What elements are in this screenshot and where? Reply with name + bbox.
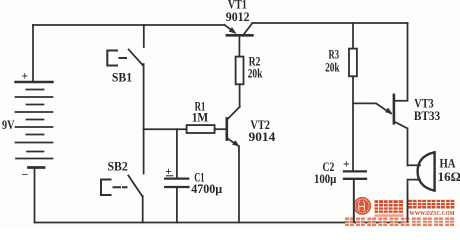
transistor VT2 base bar (226, 118, 229, 139)
battery GB 9V plates (16, 82, 53, 168)
svg-text:BT33: BT33 (414, 108, 441, 123)
transistor VT3 emitter arrowhead (385, 108, 392, 114)
switch SB2 lower wire (142, 196, 144, 223)
wire R3 to C2 and VT3 emitter node (352, 76, 354, 170)
battery GB 9V top lead wire (32, 25, 34, 82)
capacitor C2 plates (344, 171, 366, 178)
transistor VT3 emitter diagonal with arrow (376, 103, 391, 113)
wire R1 to VT2 base (215, 128, 226, 130)
wire right border over watermark (407, 190, 409, 223)
svg-text:9012: 9012 (226, 9, 250, 24)
svg-text:20k: 20k (248, 66, 263, 81)
switch SB2 upper wire (143, 129, 145, 173)
switch SB1 lower wire to mid node (143, 64, 145, 129)
svg-text:4700µ: 4700µ (191, 181, 222, 196)
switch SB1 upper wire (143, 25, 145, 47)
wire top rail left (33, 24, 225, 26)
svg-text:SB1: SB1 (112, 69, 132, 84)
capacitor C2 lower lead wire (353, 180, 355, 223)
wire R2 to VT2 collector (239, 84, 241, 106)
svg-text:100µ: 100µ (314, 171, 337, 186)
watermark text dian zi shi chang wang (408, 200, 454, 209)
speaker HA top lead wire (408, 164, 421, 166)
transistor VT1 emitter arrowhead (229, 27, 393, 146)
svg-text:+: + (22, 71, 29, 83)
capacitor C1 tap wire (176, 129, 178, 177)
svg-text:16Ω: 16Ω (438, 169, 460, 184)
transistor VT3 emitter row wire (353, 102, 376, 104)
transistor VT1 emitter wire with arrow (225, 25, 235, 32)
svg-text:−: − (22, 168, 29, 182)
transistor VT2 emitter arrowhead (232, 140, 239, 146)
watermark big text wei ku (374, 200, 403, 217)
svg-text:20k: 20k (325, 60, 340, 75)
switch SB2 blade (128, 176, 142, 197)
svg-text:+: + (343, 159, 350, 171)
switch SB1 actuator bracket E with dashes (107, 51, 126, 66)
resistor R2 body (236, 57, 244, 85)
resistor R1 body (187, 125, 215, 133)
switch SB2 actuator bracket E with dashes (101, 180, 127, 196)
switch SB1 blade (129, 50, 143, 66)
capacitor C1 lower lead wire (176, 188, 178, 223)
battery bottom lead wire (34, 168, 36, 223)
wire top rail right (252, 22, 407, 24)
transistor VT3 B2 wire to top rail (395, 23, 408, 101)
svg-text:1M: 1M (192, 110, 209, 125)
transistor VT2 emitter diagonal with arrow (227, 138, 238, 146)
svg-text:9V: 9V (2, 117, 15, 132)
transistor VT1 base bar (227, 34, 253, 37)
svg-text:SB2: SB2 (108, 158, 128, 173)
wire mid row to R1 (144, 128, 187, 130)
capacitor C1 plates (165, 179, 188, 187)
transistor VT3 base bar (393, 95, 396, 123)
speaker HA body (418, 152, 435, 190)
svg-text:WWW.DZSC.COM: WWW.DZSC.COM (409, 211, 454, 217)
resistor R3 branch wire from rail (352, 23, 354, 49)
transistor VT1 collector wire (243, 23, 252, 35)
wire bottom rail (35, 222, 408, 224)
resistor R3 body (349, 49, 357, 77)
watermark logo disc (353, 197, 371, 215)
wire C2 lower lead over watermark (353, 180, 355, 223)
transistor VT3 B1 wire down to speaker (395, 122, 408, 166)
watermark bottom row zhuan ye dian zi yuan qi jian jiao yi wang zhan (345, 218, 454, 227)
transistor VT1 base lead down (238, 36, 240, 57)
transistor VT2 emitter wire down (238, 146, 240, 222)
speaker HA bottom lead wire (408, 180, 421, 223)
svg-text:9014: 9014 (249, 129, 276, 144)
transistor VT2 collector diagonal (227, 107, 240, 120)
